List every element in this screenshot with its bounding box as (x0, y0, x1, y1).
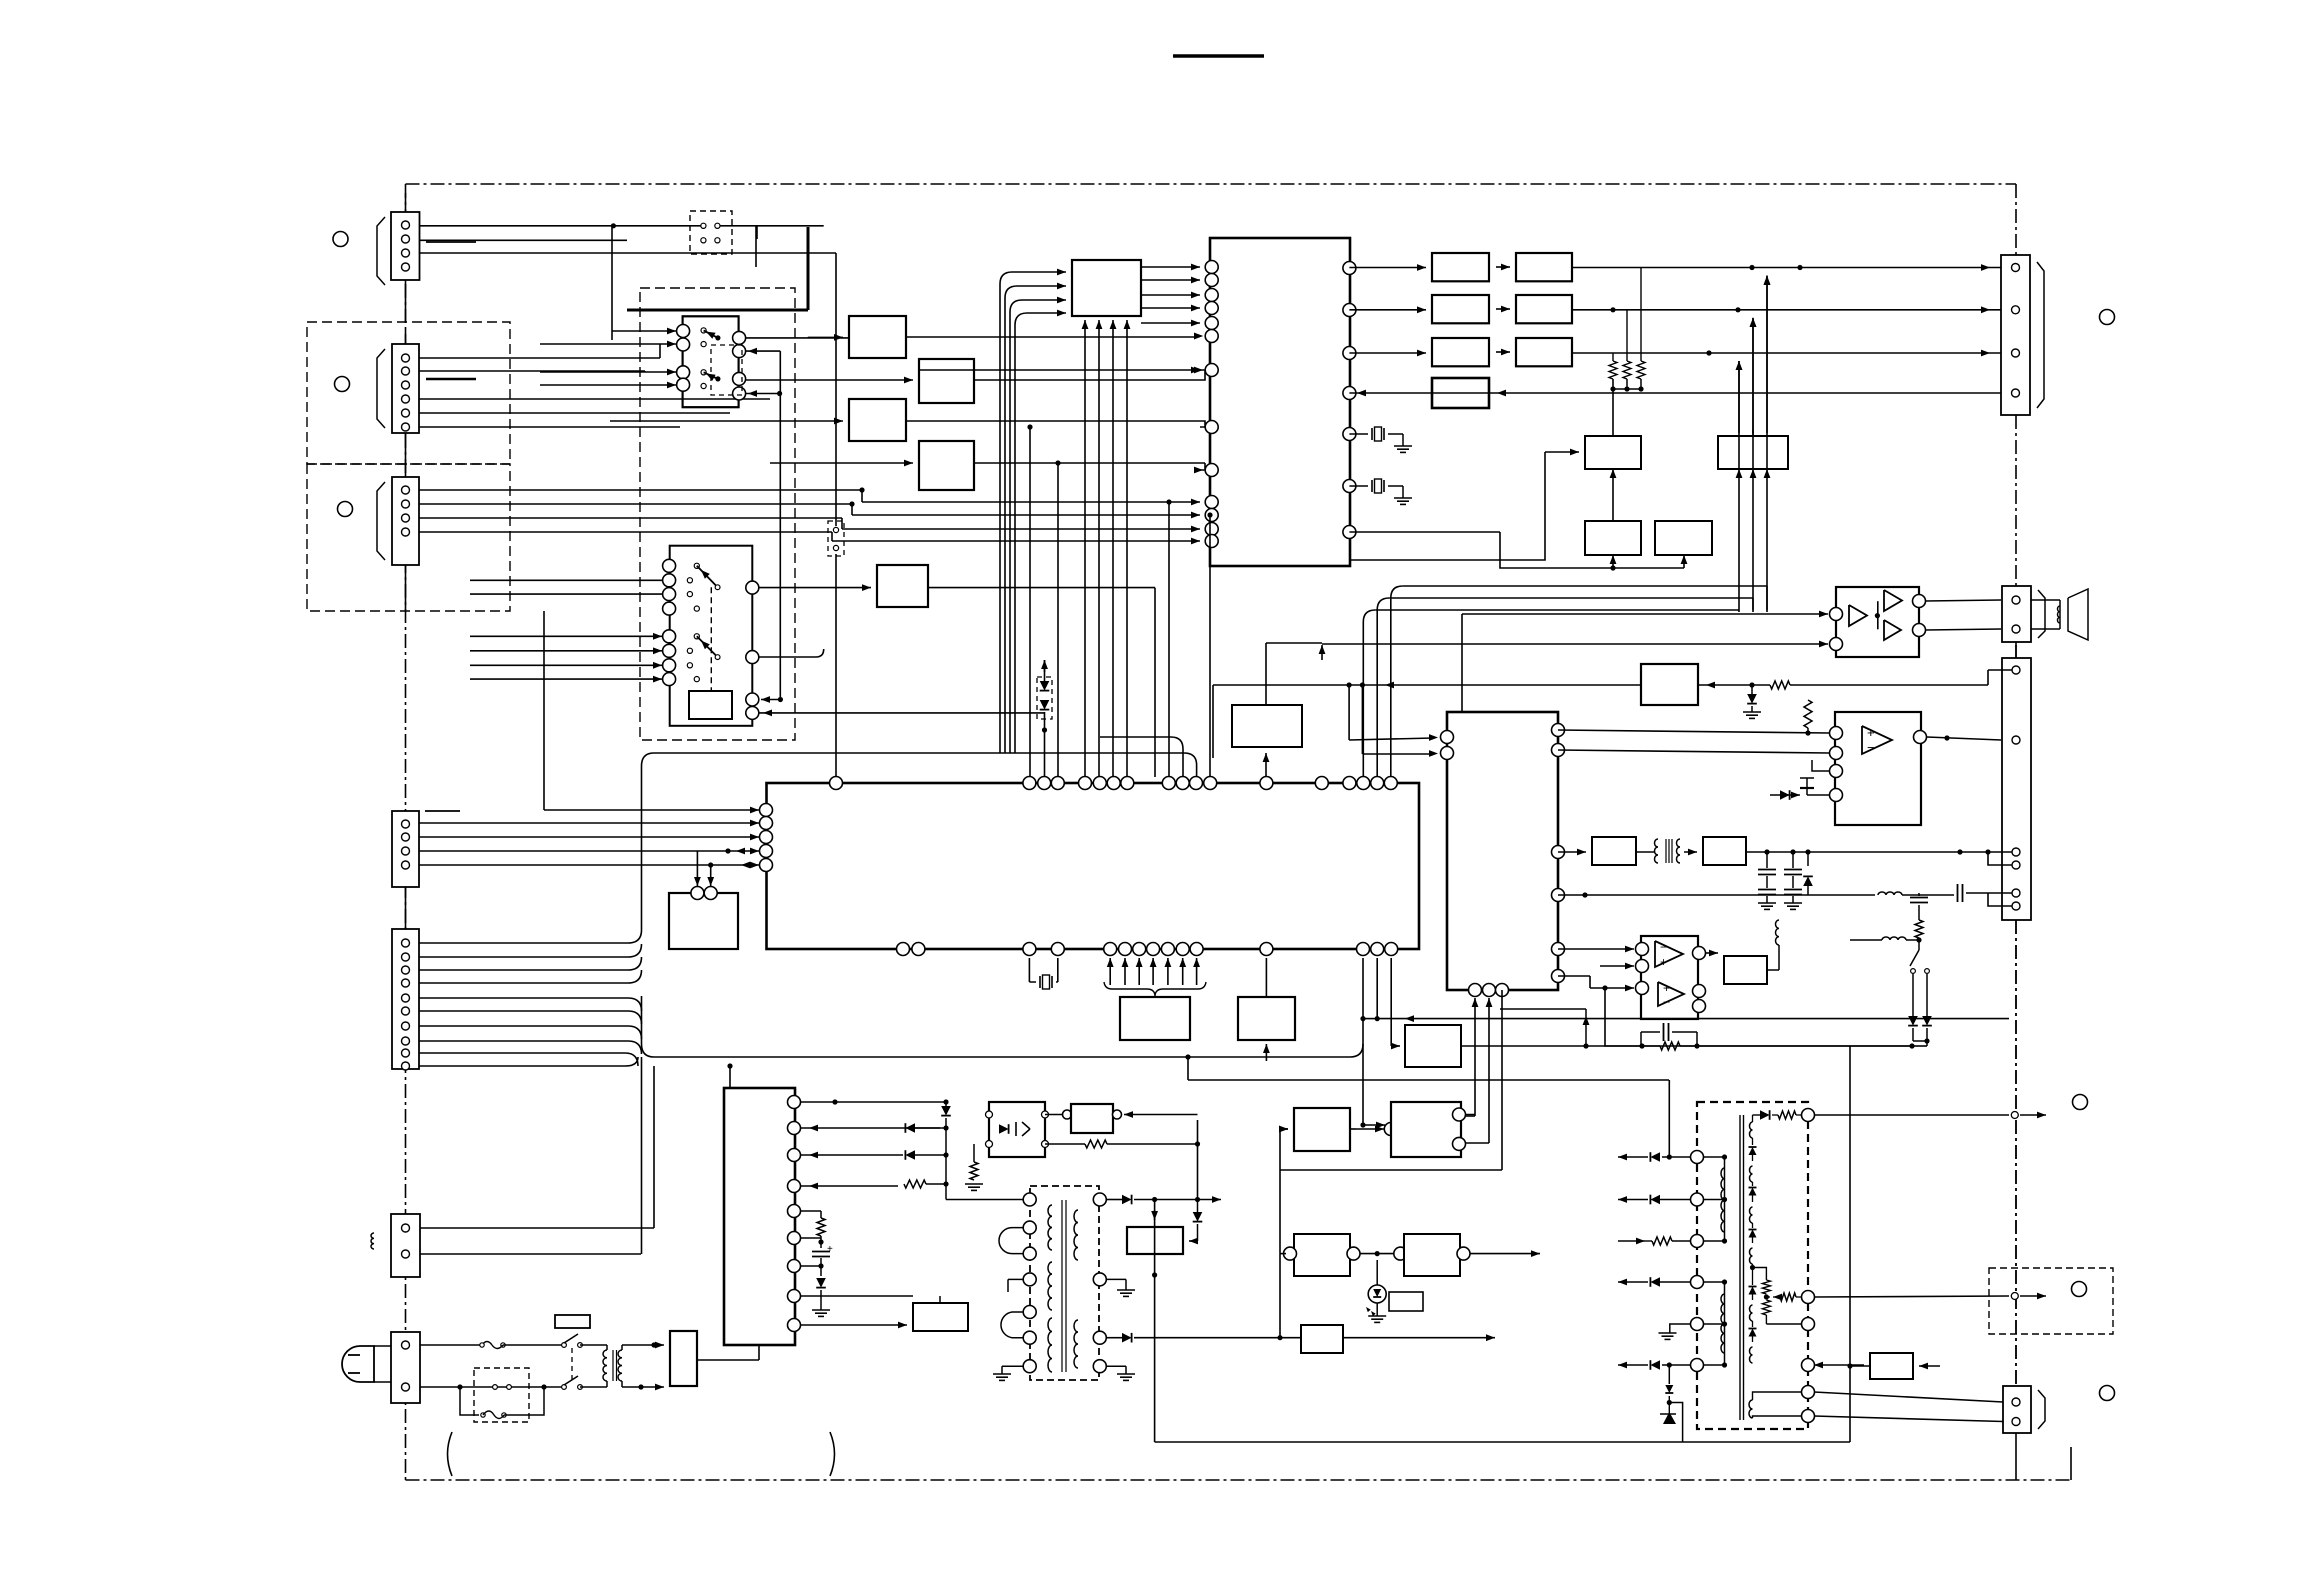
svg-text:+: + (1867, 725, 1875, 740)
svg-text:+: + (827, 1244, 833, 1255)
svg-text:−: − (1660, 940, 1667, 954)
svg-text:−: − (1867, 740, 1875, 755)
svg-text:+: + (1660, 955, 1667, 969)
svg-text:−: − (1663, 995, 1670, 1009)
svg-text:+: + (1663, 981, 1670, 995)
